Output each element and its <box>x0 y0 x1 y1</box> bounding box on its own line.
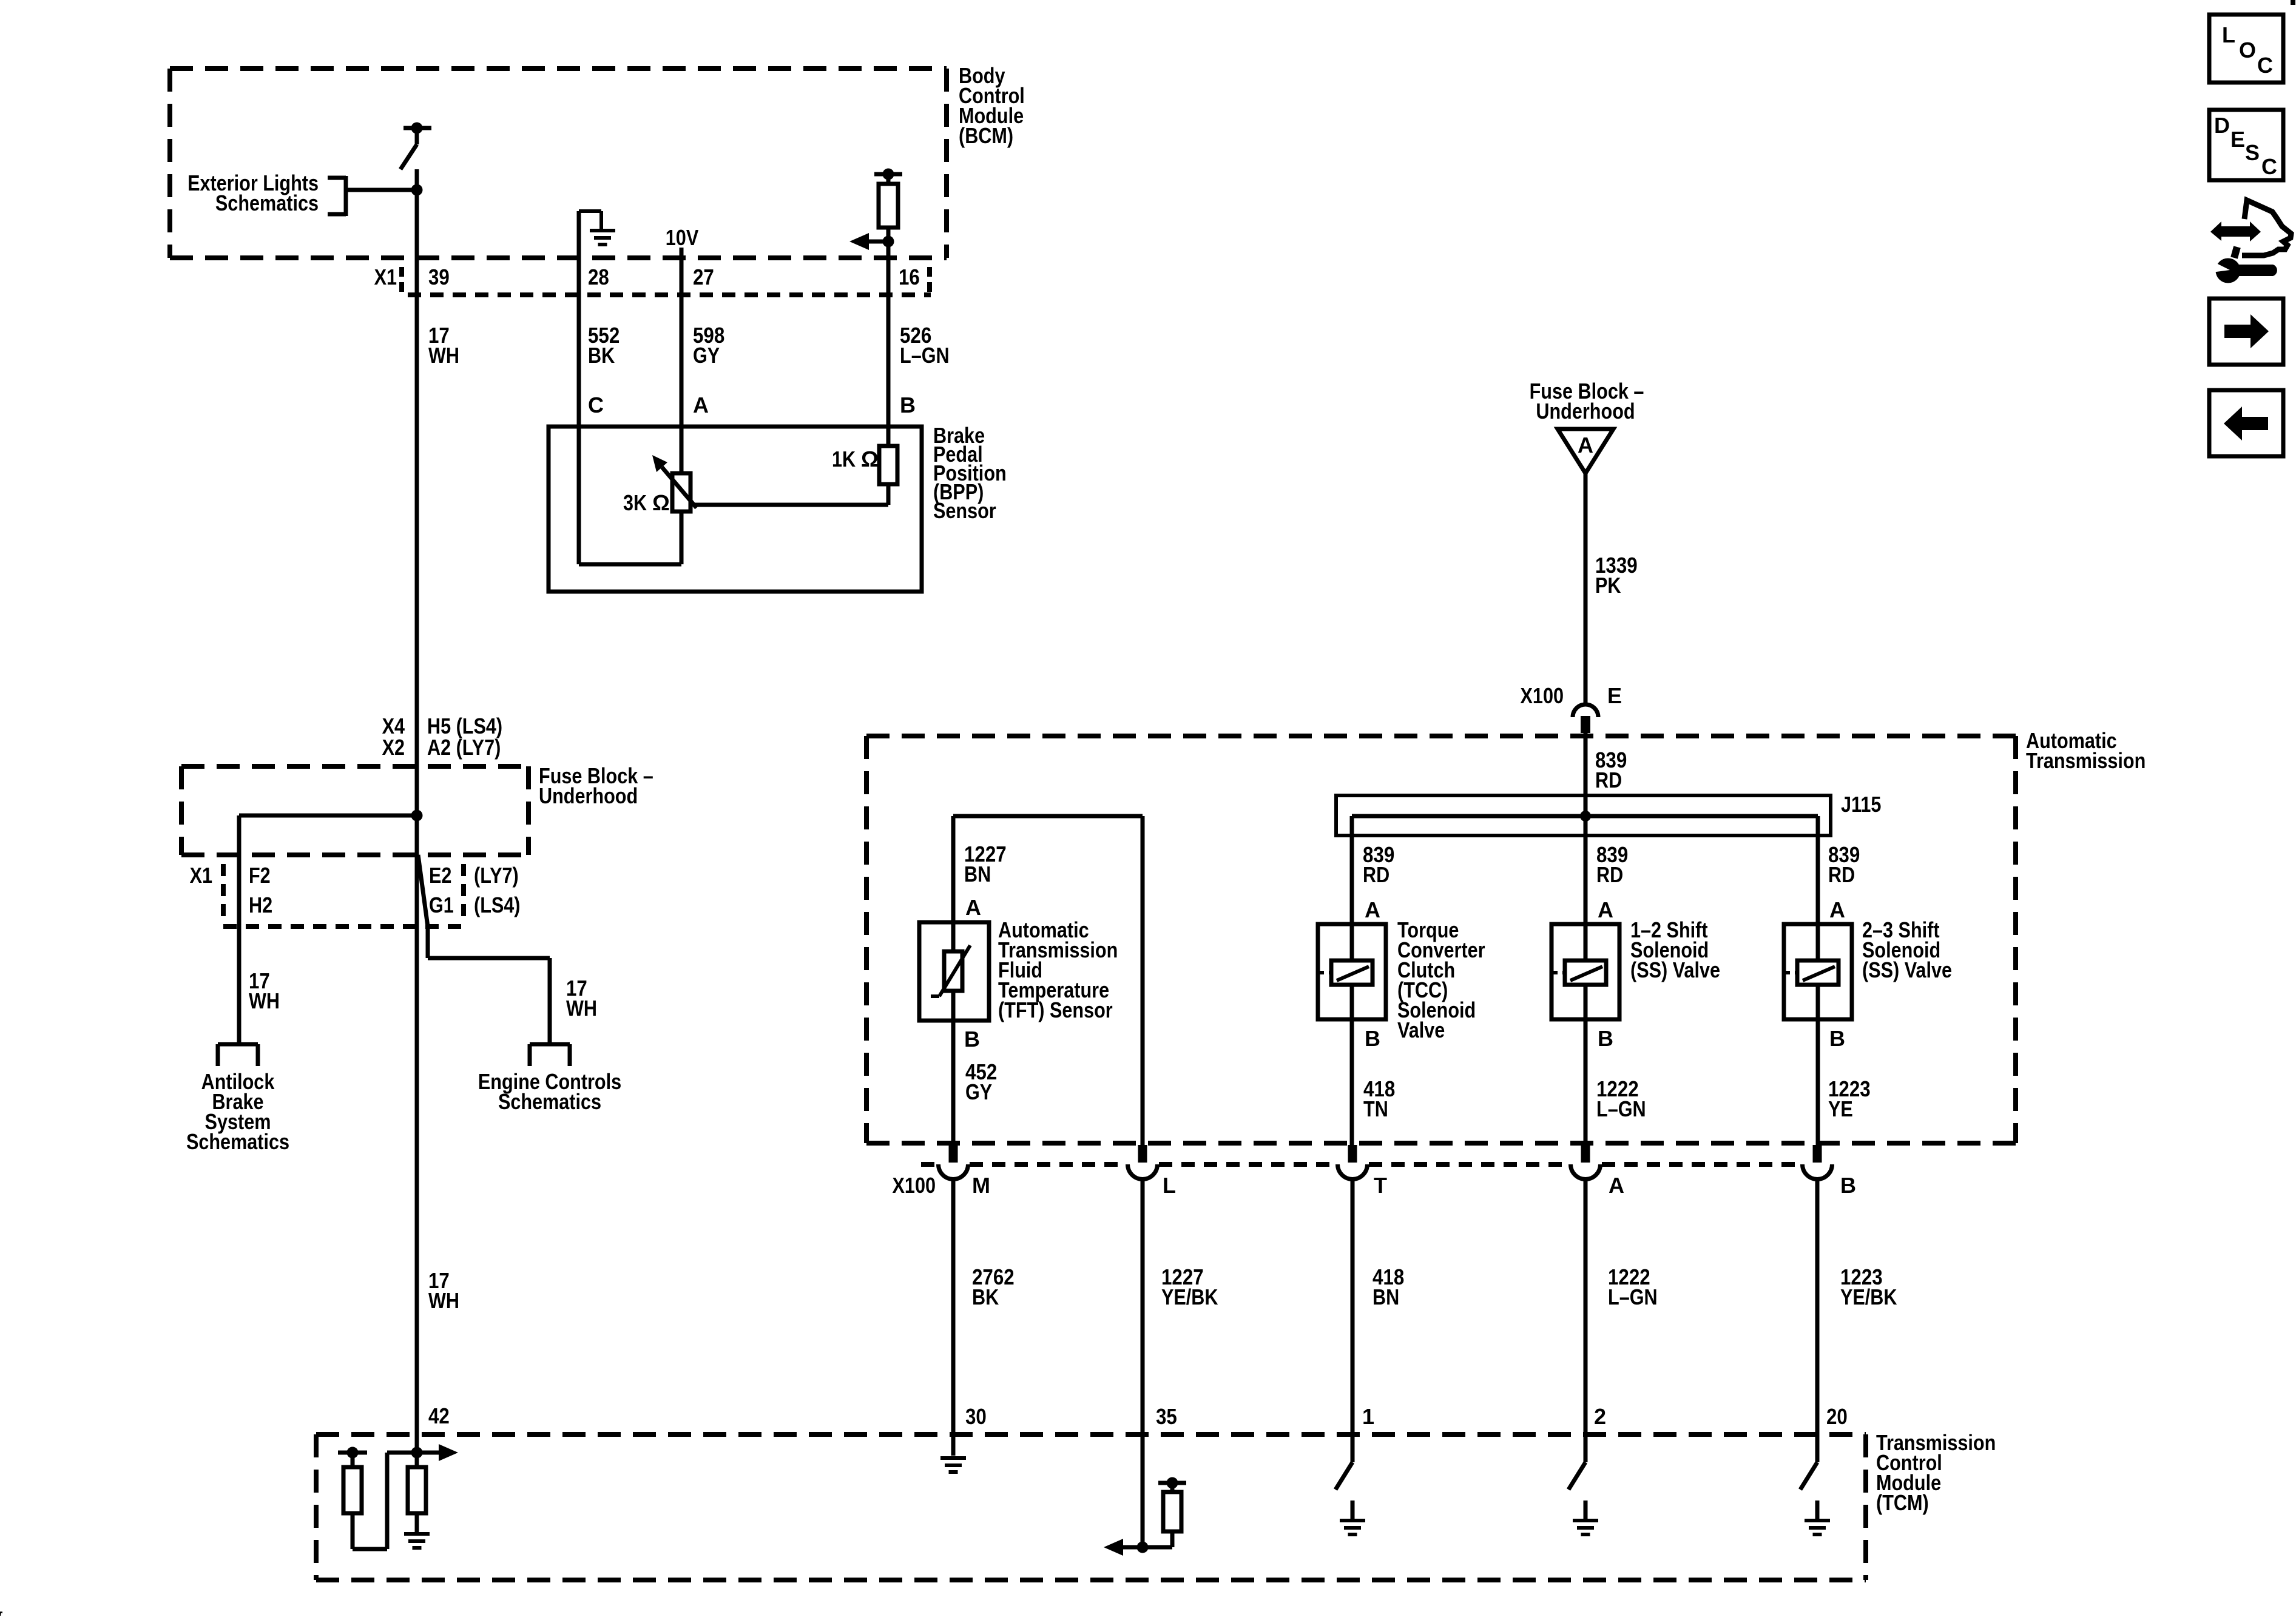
svg-text:A: A <box>1578 433 1593 457</box>
svg-text:A: A <box>1829 897 1845 922</box>
svg-text:Underhood: Underhood <box>539 783 638 808</box>
svg-text:Ω: Ω <box>861 447 879 471</box>
svg-text:B: B <box>1829 1026 1845 1051</box>
svg-text:WH: WH <box>428 343 459 368</box>
svg-text:TN: TN <box>1363 1096 1388 1121</box>
svg-text:B: B <box>1365 1026 1380 1051</box>
svg-text:E2: E2 <box>429 863 451 888</box>
svg-text:L–GN: L–GN <box>900 343 950 368</box>
svg-text:H2: H2 <box>249 893 272 917</box>
svg-text:B: B <box>1598 1026 1613 1051</box>
svg-text:Schematics: Schematics <box>215 191 319 215</box>
svg-text:YE/BK: YE/BK <box>1840 1284 1897 1309</box>
svg-text:M: M <box>972 1173 990 1198</box>
svg-text:BN: BN <box>1373 1284 1399 1309</box>
svg-text:3K: 3K <box>623 490 647 515</box>
svg-text:A: A <box>1609 1173 1624 1198</box>
svg-text:B: B <box>900 393 916 417</box>
svg-text:WH: WH <box>428 1288 459 1313</box>
svg-text:RD: RD <box>1828 862 1855 887</box>
svg-text:Ω: Ω <box>652 490 670 515</box>
svg-text:C: C <box>2257 53 2273 78</box>
svg-text:Transmission: Transmission <box>2026 748 2146 773</box>
svg-text:L: L <box>1163 1173 1176 1198</box>
svg-text:L–GN: L–GN <box>1596 1096 1646 1121</box>
svg-text:16: 16 <box>899 265 920 289</box>
svg-text:A2 (LY7): A2 (LY7) <box>427 735 501 760</box>
svg-text:RD: RD <box>1595 768 1622 792</box>
svg-text:C: C <box>588 393 604 417</box>
svg-text:D: D <box>2214 113 2230 138</box>
svg-text:GY: GY <box>965 1079 992 1104</box>
svg-text:20: 20 <box>1826 1404 1848 1429</box>
svg-text:G1: G1 <box>429 893 454 917</box>
svg-text:A: A <box>1598 897 1613 922</box>
svg-text:E: E <box>1607 683 1622 708</box>
svg-text:Valve: Valve <box>1397 1018 1445 1042</box>
svg-text:2: 2 <box>1594 1404 1606 1429</box>
svg-text:L–GN: L–GN <box>1608 1284 1658 1309</box>
svg-text:Schematics: Schematics <box>186 1129 289 1154</box>
svg-text:YE/BK: YE/BK <box>1161 1284 1218 1309</box>
svg-text:(LS4): (LS4) <box>474 893 521 917</box>
svg-text:RD: RD <box>1596 862 1623 887</box>
svg-text:RD: RD <box>1363 862 1389 887</box>
svg-text:WH: WH <box>249 988 280 1013</box>
svg-text:A: A <box>1365 897 1380 922</box>
svg-text:Sensor: Sensor <box>933 498 996 523</box>
svg-text:J115: J115 <box>1841 792 1881 817</box>
svg-text:(TFT) Sensor: (TFT) Sensor <box>998 998 1113 1022</box>
svg-text:42: 42 <box>428 1403 450 1428</box>
svg-text:S: S <box>2245 140 2260 165</box>
svg-text:35: 35 <box>1156 1404 1177 1429</box>
svg-text:(SS) Valve: (SS) Valve <box>1630 957 1720 982</box>
svg-text:X100: X100 <box>1521 683 1564 708</box>
svg-text:10V: 10V <box>666 225 699 250</box>
svg-text:X2: X2 <box>382 735 405 760</box>
svg-text:X100: X100 <box>893 1173 936 1198</box>
svg-text:WH: WH <box>566 996 597 1021</box>
svg-text:F2: F2 <box>249 863 271 888</box>
svg-text:PK: PK <box>1595 573 1621 598</box>
svg-text:A: A <box>965 895 981 920</box>
svg-text:A: A <box>693 393 709 417</box>
svg-text:BK: BK <box>972 1284 999 1309</box>
svg-text:X1: X1 <box>190 863 212 888</box>
svg-text:B: B <box>964 1027 980 1052</box>
svg-text:39: 39 <box>428 265 450 289</box>
svg-text:L: L <box>2222 22 2235 47</box>
svg-text:C: C <box>2261 154 2277 179</box>
svg-text:Schematics: Schematics <box>498 1089 601 1114</box>
svg-text:X1: X1 <box>374 265 397 289</box>
svg-text:BK: BK <box>588 343 615 368</box>
svg-text:BN: BN <box>964 862 991 886</box>
svg-text:YE: YE <box>1828 1096 1853 1121</box>
svg-text:T: T <box>1374 1173 1387 1198</box>
svg-text:(SS) Valve: (SS) Valve <box>1862 957 1952 982</box>
svg-text:1K: 1K <box>832 447 856 471</box>
svg-text:1: 1 <box>1362 1404 1374 1429</box>
svg-text:(BCM): (BCM) <box>959 123 1013 148</box>
svg-text:27: 27 <box>693 265 714 289</box>
svg-text:B: B <box>1840 1173 1856 1198</box>
svg-text:GY: GY <box>693 343 720 368</box>
svg-text:30: 30 <box>965 1404 987 1429</box>
svg-text:(LY7): (LY7) <box>474 863 519 888</box>
svg-text:Underhood: Underhood <box>1536 399 1635 424</box>
svg-text:28: 28 <box>588 265 609 289</box>
svg-text:O: O <box>2239 38 2256 62</box>
svg-text:E: E <box>2230 127 2245 152</box>
svg-text:(TCM): (TCM) <box>1876 1490 1929 1515</box>
